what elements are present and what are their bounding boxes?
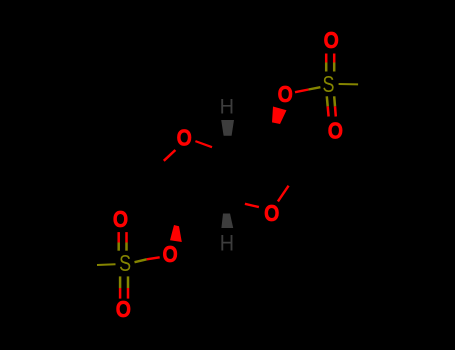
svg-text:H: H bbox=[220, 231, 234, 255]
ring 1 bond O-C3a (red half) bbox=[195, 141, 212, 147]
svg-text:O: O bbox=[163, 242, 178, 268]
mesylate 1 S=O top double bond, line 2 bbox=[333, 54, 336, 72]
svg-text:O: O bbox=[324, 27, 339, 53]
mesylate 1 bond O-S bbox=[295, 87, 320, 92]
mesylate 2 bond S-CH3 bbox=[97, 263, 116, 266]
wedge bond C5 to mesylate-2 O (stereo wedge) bbox=[170, 225, 182, 242]
svg-text:S: S bbox=[323, 72, 335, 98]
svg-text:O: O bbox=[278, 82, 293, 108]
svg-text:O: O bbox=[116, 297, 131, 323]
ring 1 bond O-CH2 (red half) bbox=[164, 150, 176, 161]
mesylate 1 S=O bottom double bond, line 1 bbox=[327, 96, 329, 116]
svg-text:O: O bbox=[113, 207, 128, 233]
wedge bond C3a-H (grey wedge, top) bbox=[221, 120, 234, 136]
ring 2 bond O-C6a (red half) bbox=[245, 204, 259, 207]
mesylate 1 bond S-CH3 bbox=[339, 83, 359, 85]
mesylate 2 S=O bottom double bond, line 2 bbox=[127, 276, 130, 298]
wedge bond C6a-H (grey wedge, bottom) bbox=[221, 214, 233, 229]
svg-text:H: H bbox=[220, 95, 234, 119]
mesylate 2 S=O top double bond, line 2 bbox=[125, 232, 128, 251]
svg-text:S: S bbox=[119, 251, 131, 277]
ring 2 bond O-CH2 (red half) bbox=[278, 186, 289, 202]
mesylate 2 S=O bottom double bond, line 1 bbox=[119, 276, 122, 298]
mesylate 2 S=O top double bond, line 1 bbox=[117, 232, 120, 251]
wedge bond C3 to mesylate-1 O (stereo wedge) bbox=[272, 107, 287, 125]
mesylate 1 S=O top double bond, line 1 bbox=[325, 54, 328, 72]
svg-text:O: O bbox=[177, 125, 192, 151]
svg-text:O: O bbox=[328, 118, 343, 144]
mesylate 1 S=O bottom double bond, line 2 bbox=[334, 96, 336, 116]
mesylate 2 bond O-S bbox=[135, 257, 160, 262]
svg-text:O: O bbox=[264, 201, 279, 227]
